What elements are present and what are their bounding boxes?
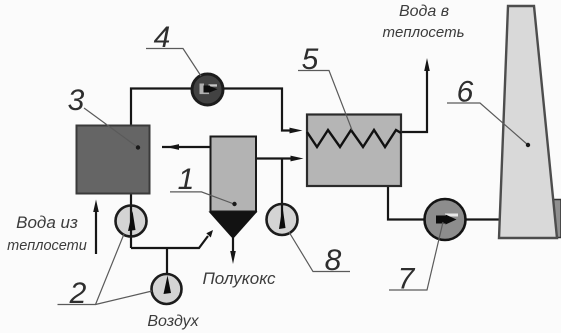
svg-text:3: 3 bbox=[68, 84, 85, 117]
svg-text:Вода из: Вода из bbox=[16, 213, 78, 232]
carbonizer vessel 1 body bbox=[211, 137, 257, 212]
svg-text:теплосети: теплосети bbox=[7, 238, 87, 254]
gauge 8 bbox=[267, 204, 298, 235]
leader for label 6 bbox=[447, 103, 528, 145]
heat exchanger 5 coil zigzag bbox=[307, 130, 401, 147]
carbonizer vessel 1 cone bbox=[209, 212, 258, 240]
blower 2 (air) bbox=[152, 274, 182, 304]
svg-text:5: 5 bbox=[302, 43, 319, 76]
gray stub behind chimney right edge bbox=[551, 200, 561, 238]
leader for label 7 bbox=[389, 222, 443, 290]
wire: branch down to gauge8 bbox=[281, 159, 283, 205]
heat exchanger 5 body bbox=[307, 115, 401, 187]
leader for label 4 bbox=[146, 49, 201, 77]
leader for label 1 bbox=[170, 192, 234, 204]
wire: exchanger bottom to pump7 bbox=[388, 186, 425, 220]
svg-text:8: 8 bbox=[325, 244, 342, 277]
svg-text:4: 4 bbox=[154, 21, 171, 54]
wire: reactor3 top riser to pump4 run, down to exchanger inlet bbox=[131, 89, 296, 131]
valve 2 under reactor bbox=[116, 206, 147, 237]
svg-text:теплосеть: теплосеть bbox=[383, 24, 465, 41]
wire: reactor3 bottom drop through valve2 bbox=[130, 193, 132, 248]
svg-text:Воздух: Воздух bbox=[147, 313, 199, 330]
wire: water inlet arrow into reactor3 bottom bbox=[95, 209, 97, 254]
leader for label 3 bbox=[84, 108, 138, 148]
svg-text:Полукокс: Полукокс bbox=[202, 269, 276, 288]
leader for label 8 bbox=[289, 232, 350, 272]
reactor vessel 3 bbox=[77, 126, 150, 194]
wire: arrow into reactor3 right side bbox=[166, 144, 179, 150]
wire: vessel1 to reactor3 gas line bbox=[162, 146, 210, 148]
svg-text:7: 7 bbox=[398, 263, 416, 296]
wire: semicoke discharge arrow bbox=[232, 238, 234, 253]
chimney 6 bbox=[499, 6, 557, 238]
wire: pump7 to chimney bbox=[465, 218, 502, 220]
leader for label 2 bbox=[58, 234, 125, 305]
wire: exchanger outlet up to heat network with arrow bbox=[401, 70, 427, 132]
svg-text:Вода в: Вода в bbox=[399, 3, 449, 20]
wire: arrow into exchanger left top port bbox=[290, 128, 303, 134]
pump 4 bbox=[192, 74, 223, 105]
svg-text:2: 2 bbox=[69, 277, 87, 310]
wire: branch down to blower2 bbox=[166, 248, 168, 275]
wire: air header to cone with arrow bbox=[131, 236, 208, 248]
svg-text:1: 1 bbox=[178, 163, 195, 196]
pump 7 bbox=[425, 199, 466, 240]
wire: arrow into exchanger left lower port bbox=[291, 156, 304, 162]
wire: vessel1 right to exchanger lower port bbox=[256, 157, 296, 159]
leader for label 5 bbox=[298, 71, 352, 131]
svg-text:6: 6 bbox=[457, 76, 474, 109]
